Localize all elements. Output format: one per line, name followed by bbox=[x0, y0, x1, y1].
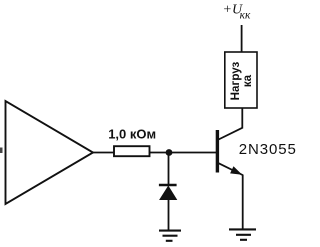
ground: right ground symbol bbox=[229, 229, 256, 239]
diode VD1 (cathode up, anode down) bbox=[159, 185, 177, 200]
transistor Q1 2N3055 (NPN) bbox=[217, 128, 242, 175]
resistor R1 bbox=[114, 146, 150, 156]
scan artifact: left edge mark bbox=[0, 148, 3, 154]
ground: left ground symbol bbox=[159, 231, 181, 241]
svg-text:кк: кк bbox=[240, 10, 251, 22]
svg-text:Нагруз: Нагруз bbox=[229, 61, 242, 100]
load box "Нагрузка" bbox=[225, 52, 257, 108]
svg-text:1,0 кОм: 1,0 кОм bbox=[108, 126, 156, 141]
svg-text:2N3055: 2N3055 bbox=[239, 141, 297, 158]
svg-text:ка: ка bbox=[241, 74, 254, 87]
wire: diode VD1 anode to ground bbox=[168, 199, 170, 230]
wire: resistor R1 to transistor base bbox=[150, 152, 217, 154]
node: junction of resistor, diode, base bbox=[166, 149, 173, 156]
wire: emitter to ground bbox=[242, 175, 244, 230]
wire: junction down to diode VD1 cathode bbox=[168, 153, 170, 185]
wire: load box to +Ukk supply bbox=[241, 25, 243, 52]
wire: collector to load box bbox=[241, 108, 243, 129]
op-amp buffer A1 bbox=[6, 101, 94, 204]
wire: buffer output to resistor R1 bbox=[92, 152, 114, 154]
